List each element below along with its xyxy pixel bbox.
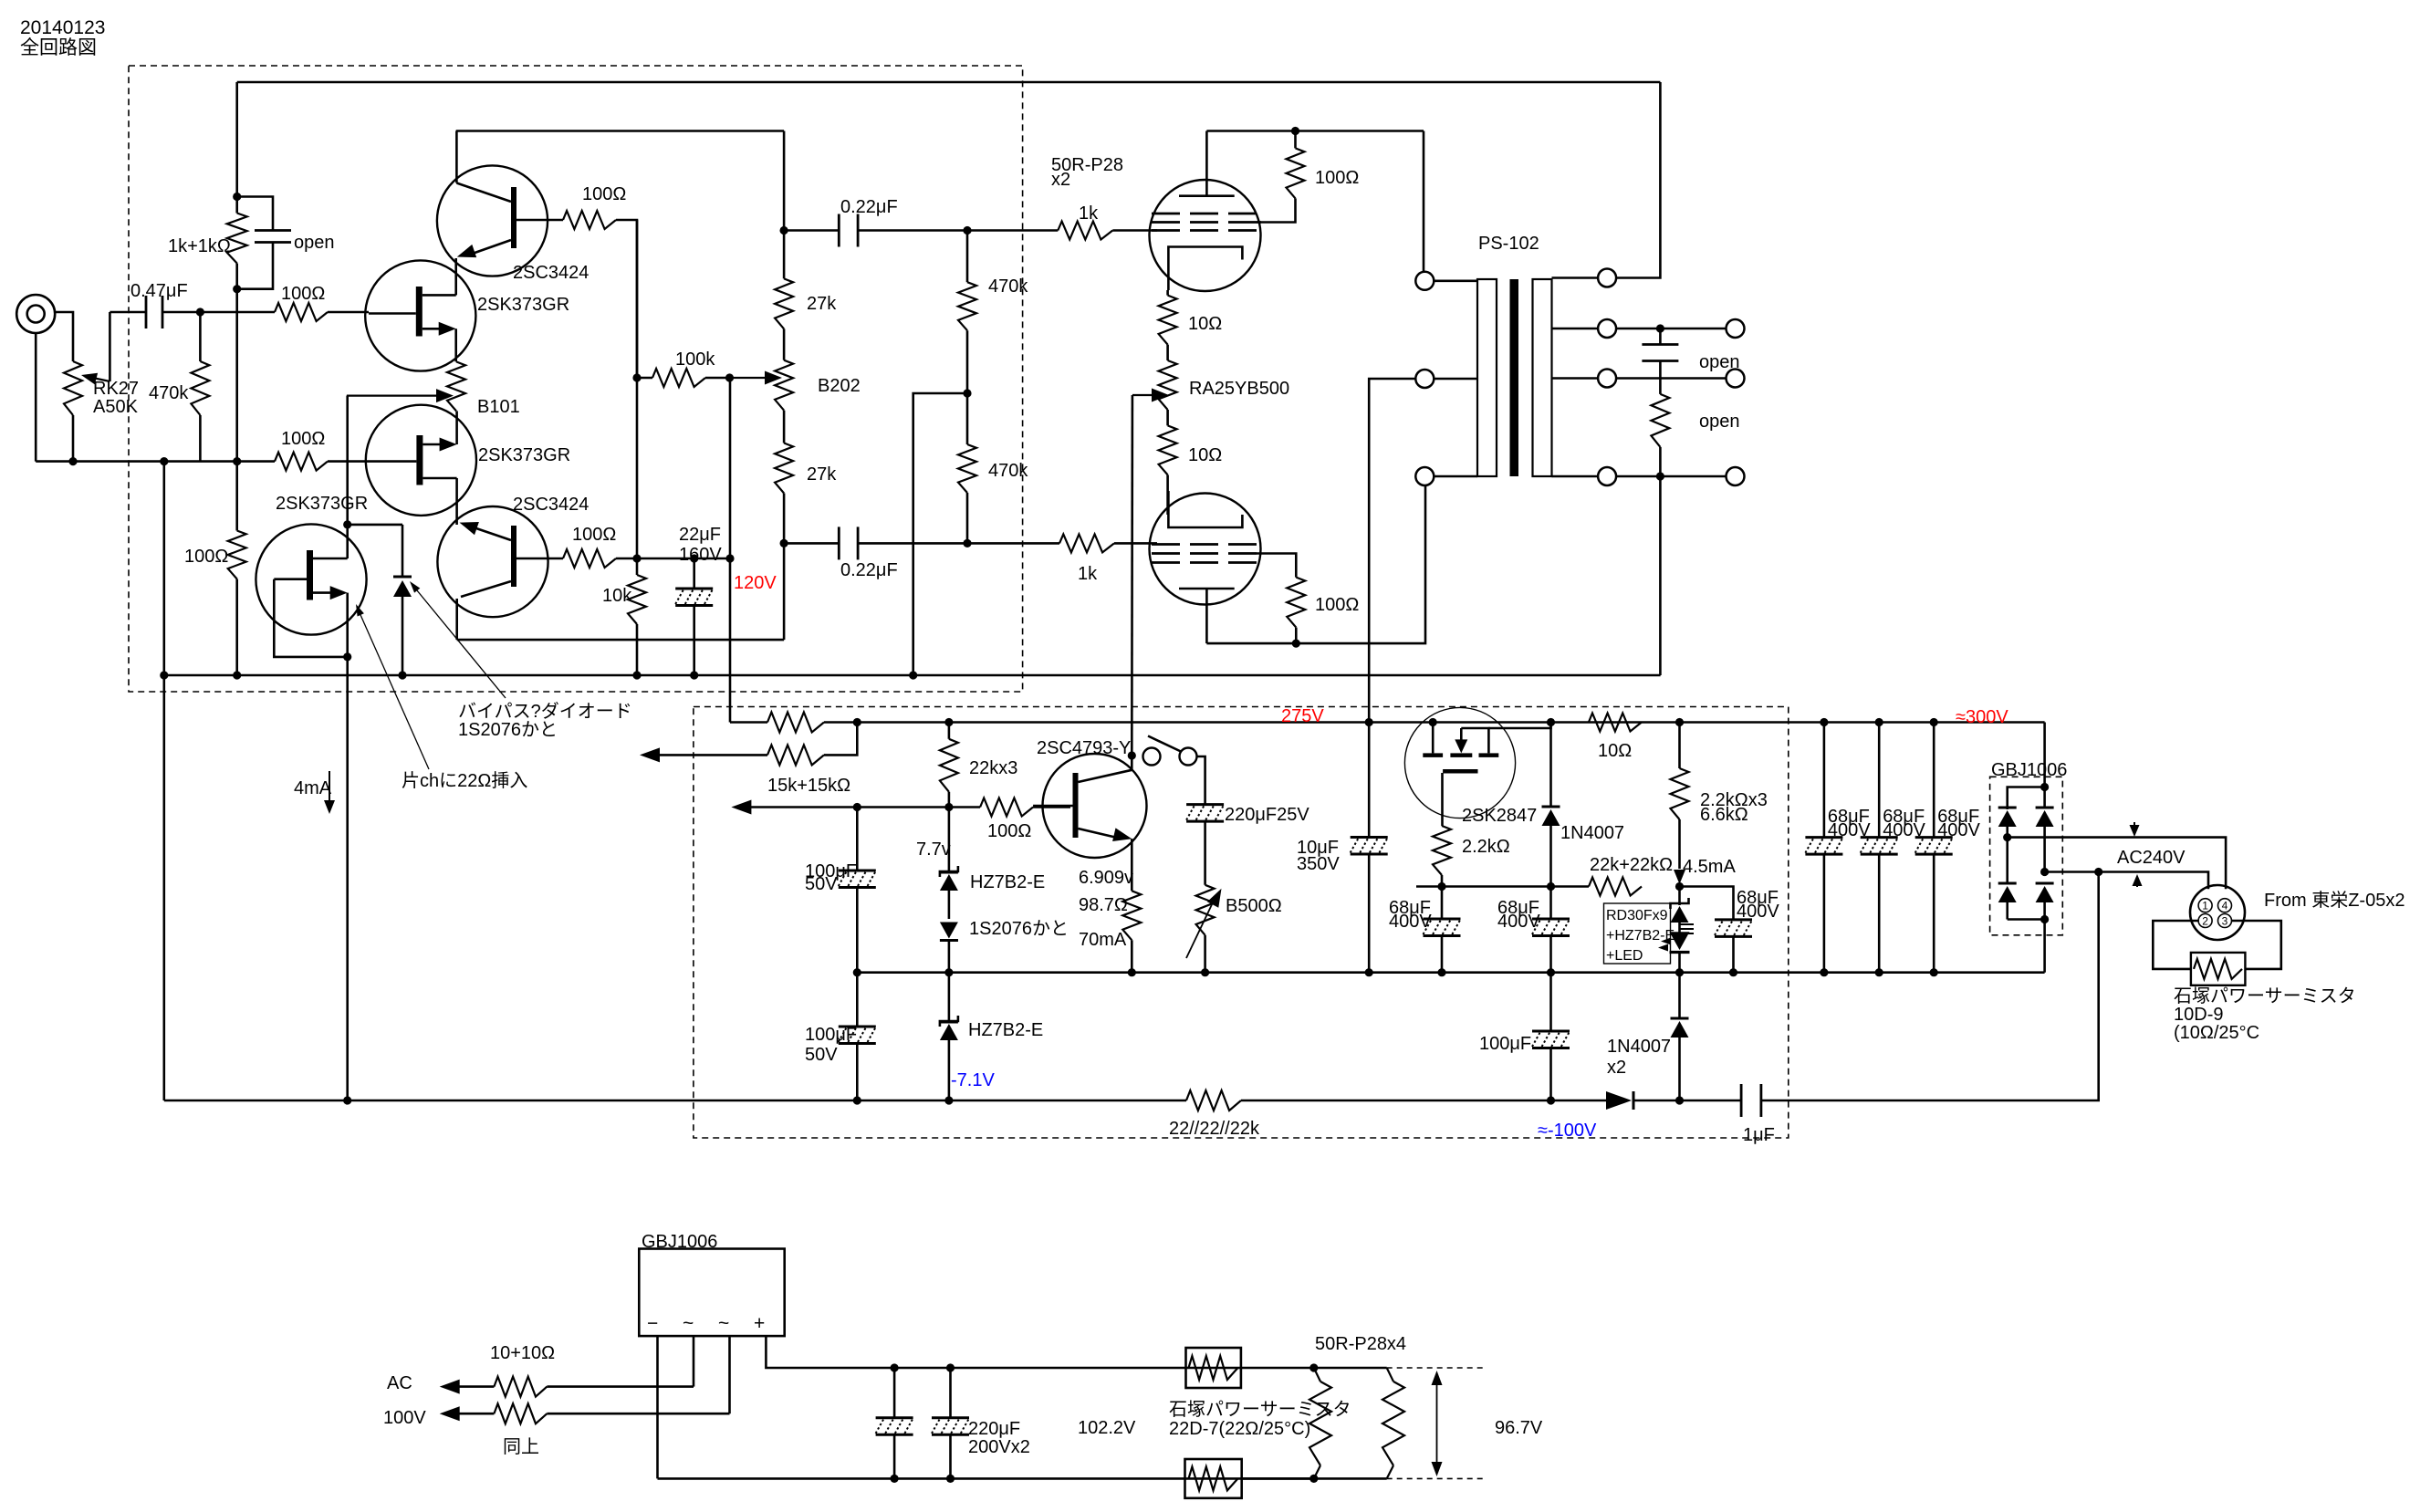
node base lower divider bbox=[632, 554, 641, 562]
wire wiper up to signal bbox=[109, 312, 111, 381]
arrow 4mA bbox=[329, 771, 330, 803]
node 120V cap junction bbox=[725, 554, 734, 562]
svg-text:10D-9: 10D-9 bbox=[2174, 1005, 2223, 1025]
wire input lower rail bbox=[36, 460, 275, 463]
GBJ1006 bottom rectifier box bbox=[639, 1249, 784, 1337]
potentiometer B101 bbox=[447, 361, 465, 411]
svg-text:2SK373GR: 2SK373GR bbox=[478, 445, 570, 465]
node 0.22uF lower junction bbox=[780, 539, 788, 547]
resistor 100R plate lower bbox=[1257, 554, 1296, 578]
diode 1N4007 psu bbox=[1547, 718, 1555, 726]
svg-text:片chに22Ω挿入: 片chに22Ω挿入 bbox=[402, 770, 527, 791]
GBJ ac1 lead bbox=[693, 1336, 695, 1387]
bridge top link bbox=[2008, 787, 2045, 810]
wire long left vertical upper bbox=[163, 462, 166, 675]
tube V2 cathode bbox=[1168, 515, 1242, 527]
zener RD30F chain bbox=[1678, 887, 1681, 906]
svg-text:98.7Ω: 98.7Ω bbox=[1079, 895, 1128, 915]
wire AC100V lower bbox=[494, 1403, 547, 1423]
resistor 100R source3 bbox=[228, 531, 246, 579]
node on PSU ground rail bbox=[1675, 968, 1684, 976]
wire -100V segment b bbox=[1633, 1100, 1680, 1102]
annotation arrow to source bbox=[358, 609, 429, 769]
B202 wiper arrow bbox=[730, 377, 766, 379]
svg-text:0.22μF: 0.22μF bbox=[840, 197, 898, 217]
channel dashed box bbox=[129, 66, 1023, 692]
node collector/switch junction bbox=[1128, 751, 1136, 759]
wire FET2 drain down bbox=[455, 478, 458, 525]
capacitor 0.22uF upper bbox=[784, 229, 839, 232]
bridge diode D1 bbox=[1998, 807, 2017, 809]
node 68uF top 3 bbox=[1930, 718, 1938, 726]
node on PSU ground rail bbox=[944, 968, 953, 976]
capacitor 22uF 160V bbox=[693, 558, 695, 589]
node 470k lower junction bbox=[963, 539, 971, 547]
wire FET3 drain up to B101 wiper bbox=[346, 396, 349, 558]
svg-text:B202: B202 bbox=[818, 376, 861, 396]
wire sec ground down to rail bbox=[1659, 476, 1662, 675]
resistor 470k lower-right bbox=[966, 393, 969, 444]
diode 1S2076 bypass bbox=[402, 525, 404, 577]
node 68uF top 1 bbox=[1820, 718, 1828, 726]
wire FET1 drain up bbox=[454, 258, 457, 295]
svg-text:GBJ1006: GBJ1006 bbox=[1991, 760, 2067, 780]
wire sense line bbox=[1416, 885, 1589, 888]
node 1N4007 bottom bbox=[1547, 882, 1555, 891]
node junction signal/470k bbox=[196, 308, 204, 316]
wire Q4 collector return line bbox=[457, 639, 784, 641]
node plate resistor top bbox=[1291, 127, 1299, 135]
svg-text:100V: 100V bbox=[383, 1408, 426, 1428]
svg-text:HZ7B2-E: HZ7B2-E bbox=[970, 872, 1045, 892]
node 470k midpoint bbox=[966, 330, 969, 393]
svg-text:22kx3: 22kx3 bbox=[969, 758, 1017, 778]
node rail bias bbox=[233, 671, 241, 679]
wire sec row4 bbox=[1616, 475, 1726, 478]
B101 wiper arrow bbox=[347, 395, 436, 397]
node plate resistor bottom bbox=[1292, 640, 1300, 648]
capacitor 220uF a bbox=[891, 1363, 899, 1371]
capacitor open secondary bbox=[1659, 328, 1662, 344]
thermistor 22D-7 lower bbox=[1185, 1459, 1242, 1498]
wire VAS col to collector return bbox=[783, 543, 786, 640]
resistor 100R base lower bbox=[563, 549, 616, 568]
node divider mid bbox=[632, 373, 641, 381]
svg-text:2SC4793-Y: 2SC4793-Y bbox=[1037, 738, 1131, 758]
node on PSU ground rail bbox=[853, 968, 861, 976]
wire V2 plate line bbox=[1206, 476, 1425, 643]
wire top collector line bbox=[456, 130, 784, 132]
svg-text:22//22//22k: 22//22//22k bbox=[1169, 1119, 1260, 1139]
bridge diode D4 bbox=[2036, 882, 2054, 885]
capacitor 68uF 400V 2 bbox=[1878, 723, 1881, 838]
capacitor 10uF 350V bbox=[1365, 718, 1373, 726]
node sec bottom junction bbox=[1656, 472, 1664, 480]
wire 470k mid to ground bbox=[913, 393, 967, 675]
arrow AC marker down bbox=[2134, 822, 2135, 829]
wire 100R to FET1 gate bbox=[328, 311, 369, 314]
wire collector top corner down bbox=[783, 131, 786, 231]
svg-text:100μF: 100μF bbox=[1479, 1034, 1531, 1054]
2SK2847 body arrow bbox=[1455, 739, 1467, 753]
capacitor 220uF b bbox=[946, 1363, 955, 1371]
svg-text:≈300V: ≈300V bbox=[1956, 707, 2008, 727]
wire bias col to 100R vert bbox=[235, 462, 238, 531]
node bridge AC1 bbox=[2003, 833, 2011, 841]
svg-text:400V: 400V bbox=[1937, 820, 1980, 840]
svg-text:AC240V: AC240V bbox=[2117, 848, 2186, 868]
wire pin3 to thermistor bbox=[2232, 921, 2281, 969]
svg-text:x2: x2 bbox=[1607, 1058, 1626, 1078]
svg-text:2SK2847: 2SK2847 bbox=[1462, 806, 1537, 826]
node open cap top bbox=[1656, 324, 1664, 332]
svg-text:RD30Fx9: RD30Fx9 bbox=[1606, 908, 1668, 923]
wire to FET2 gate bbox=[328, 460, 369, 463]
wire amp ground rail bbox=[164, 674, 1661, 677]
2SK2847 drain stub bbox=[1461, 728, 1488, 753]
thermistor 22D-7 upper bbox=[1186, 1348, 1241, 1388]
node tail on -100V line bbox=[343, 1096, 351, 1104]
zener HZ7B2-E upper bbox=[948, 808, 951, 871]
svg-text:A50K: A50K bbox=[93, 397, 139, 417]
tube V2 50R-P28 lower bbox=[1150, 494, 1261, 605]
LED indicator bbox=[1670, 932, 1690, 950]
resistor 10R psu bbox=[1589, 714, 1642, 732]
wire FET3 gate loop bbox=[274, 579, 347, 657]
GBJ minus lead bbox=[656, 1336, 659, 1478]
node on PSU ground rail bbox=[1128, 968, 1136, 976]
annotation arrow to diode bbox=[412, 585, 506, 698]
svg-text:−: − bbox=[647, 1313, 658, 1334]
svg-text:100Ω: 100Ω bbox=[281, 284, 325, 304]
svg-text:2: 2 bbox=[2202, 915, 2208, 928]
svg-text:100Ω: 100Ω bbox=[1315, 168, 1359, 188]
node 0.22uF upper junction bbox=[780, 226, 788, 235]
node on PSU ground rail bbox=[1820, 968, 1828, 976]
transistor Q5 2SK373GR bbox=[256, 524, 366, 634]
resistor 10k bbox=[636, 558, 639, 575]
svg-text:7.7v: 7.7v bbox=[916, 839, 951, 860]
svg-text:100Ω: 100Ω bbox=[572, 525, 616, 545]
node diode bottom on rail bbox=[398, 671, 406, 679]
resistor 22kx3 bbox=[944, 718, 953, 726]
wire bottom bus bbox=[658, 1477, 1314, 1480]
svg-text:(10Ω/25°C: (10Ω/25°C bbox=[2174, 1023, 2259, 1043]
svg-text:100Ω: 100Ω bbox=[1315, 595, 1359, 615]
secondary terminals left bbox=[1598, 269, 1616, 287]
wire grid2 stub upper bbox=[1257, 221, 1261, 224]
wire sec row2 bbox=[1616, 328, 1726, 330]
resistor 470k upper-right bbox=[966, 231, 969, 283]
svg-text:100Ω: 100Ω bbox=[184, 547, 228, 567]
svg-text:1N4007: 1N4007 bbox=[1607, 1037, 1671, 1057]
node heater left bottom bbox=[1309, 1475, 1318, 1483]
svg-text:0.22μF: 0.22μF bbox=[840, 560, 898, 580]
svg-text:10Ω: 10Ω bbox=[1188, 445, 1222, 465]
capacitor 0.47uF bbox=[145, 296, 148, 328]
svg-text:102.2V: 102.2V bbox=[1078, 1418, 1136, 1438]
resistor 1k upper bbox=[1058, 222, 1112, 240]
wire heater bottom bbox=[1242, 1477, 1387, 1480]
svg-text:120V: 120V bbox=[734, 573, 777, 593]
heater resistor 1 bbox=[1314, 1368, 1320, 1382]
node 100k right bbox=[725, 373, 734, 381]
svg-text:6.6kΩ: 6.6kΩ bbox=[1700, 805, 1748, 825]
secondary terminals right bbox=[1727, 319, 1745, 338]
svg-text:400V: 400V bbox=[1497, 912, 1540, 932]
svg-text:50V: 50V bbox=[805, 1045, 838, 1065]
node bias column on lower rail bbox=[233, 457, 241, 465]
node 10k bottom on rail bbox=[632, 671, 641, 679]
svg-text:10Ω: 10Ω bbox=[1598, 741, 1632, 761]
node 22uF bottom on rail bbox=[690, 671, 698, 679]
wire to 1k lower bbox=[967, 542, 1059, 545]
node on PSU ground rail bbox=[1875, 968, 1883, 976]
svg-text:+LED: +LED bbox=[1606, 948, 1643, 964]
transformer primary terminals bbox=[1415, 272, 1434, 290]
resistor 1k+1k bbox=[235, 197, 238, 214]
wire to 1k upper bbox=[967, 229, 1058, 232]
resistor 27k upper bbox=[783, 231, 786, 279]
resistor 10R upper bbox=[1166, 290, 1169, 296]
svg-text:400V: 400V bbox=[1389, 912, 1432, 932]
svg-text:100Ω: 100Ω bbox=[281, 429, 325, 449]
wire junction to gate resistor bbox=[200, 311, 275, 314]
transistor Q1 2SK373GR bbox=[365, 260, 475, 370]
GBJ ac2 lead bbox=[728, 1336, 731, 1413]
node 68uF top 2 bbox=[1875, 718, 1883, 726]
diode 1N4007 horizontal bbox=[1606, 1091, 1632, 1110]
resistor 100R psu bbox=[980, 798, 1033, 817]
wire bridge minus to rail bbox=[2043, 920, 2046, 973]
capacitor 68uF 400V a bbox=[1441, 887, 1444, 920]
wire B101 bottom to FET2 source bbox=[455, 411, 458, 444]
svg-text:96.7V: 96.7V bbox=[1495, 1418, 1543, 1438]
GBJ plus lead bbox=[766, 1336, 1313, 1368]
svg-text:22k+22kΩ: 22k+22kΩ bbox=[1590, 855, 1673, 875]
arrow AC marker up bbox=[2136, 880, 2138, 887]
transistor Q2 2SC3424 bbox=[437, 165, 548, 276]
RCA jack J1 bbox=[16, 295, 55, 333]
svg-text:open: open bbox=[294, 233, 335, 253]
svg-text:AC: AC bbox=[387, 1373, 412, 1393]
svg-text:1S2076かと: 1S2076かと bbox=[969, 919, 1069, 939]
wire 275V line bbox=[857, 721, 2044, 724]
svg-text:27k: 27k bbox=[807, 294, 837, 314]
diode 1N4007 x2 vertical bbox=[1678, 973, 1681, 1018]
node bridge AC2 bbox=[2040, 868, 2049, 876]
svg-text:1k+1kΩ: 1k+1kΩ bbox=[168, 236, 231, 256]
node on PSU ground rail bbox=[1201, 968, 1209, 976]
node diode on -100V bbox=[1675, 1096, 1684, 1104]
wire 300V corner to bridge bbox=[2043, 723, 2046, 787]
svg-text:GBJ1006: GBJ1006 bbox=[642, 1232, 717, 1252]
svg-text:275V: 275V bbox=[1281, 706, 1324, 726]
svg-text:15k+15kΩ: 15k+15kΩ bbox=[767, 776, 850, 796]
node FET3 source junction bbox=[343, 652, 351, 661]
svg-text:6.909v: 6.909v bbox=[1079, 868, 1133, 888]
capacitor 68uF 400V 3 bbox=[1933, 723, 1935, 838]
resistor open secondary bbox=[1659, 379, 1662, 394]
svg-text:-7.1V: -7.1V bbox=[951, 1070, 995, 1090]
resistor 2.2kx3 bbox=[1678, 723, 1681, 769]
node 470k ground on rail bbox=[909, 671, 917, 679]
resistor 27k lower bbox=[783, 411, 786, 443]
node 1k+1k bottom bbox=[233, 285, 241, 293]
wire primary bottom lead bbox=[1434, 475, 1477, 478]
resistor 15k+15k upper bbox=[767, 713, 824, 733]
resistor 100R gate1 bbox=[275, 303, 328, 321]
wire primary top lead bbox=[1434, 279, 1477, 282]
node on PSU ground rail bbox=[1365, 968, 1373, 976]
wire rail col down-left bbox=[163, 675, 166, 1100]
svg-text:~: ~ bbox=[718, 1313, 729, 1334]
diode 1S2076 bbox=[940, 923, 958, 939]
wire PSU ground rail bbox=[857, 971, 2044, 974]
wire bias column down bbox=[235, 289, 238, 462]
svg-text:160V: 160V bbox=[679, 545, 722, 565]
node 100uF right on -100V bbox=[1547, 1096, 1555, 1104]
resistor 1k lower bbox=[1059, 534, 1114, 552]
secondary tap wires bbox=[1552, 276, 1599, 279]
svg-text:+: + bbox=[754, 1313, 765, 1334]
wire divider column bbox=[636, 220, 639, 378]
GBJ1006 dashed outline bbox=[1990, 777, 2063, 935]
svg-text:200Vx2: 200Vx2 bbox=[968, 1437, 1030, 1457]
capacitor 68uF 400V b bbox=[1549, 887, 1552, 920]
wire 120V feed corner bbox=[730, 721, 767, 724]
wire plate to primary top bbox=[1423, 131, 1425, 281]
node on PSU ground rail bbox=[1547, 968, 1555, 976]
svg-text:27k: 27k bbox=[807, 464, 837, 485]
svg-text:470k: 470k bbox=[149, 383, 189, 403]
node 470k upper junction bbox=[963, 226, 971, 235]
capacitor 68uF 400V c bbox=[1715, 918, 1752, 921]
capacitor 100uF right bbox=[1549, 973, 1552, 1031]
wire sec top to feedback bbox=[1616, 82, 1660, 278]
svg-text:50R-P28x4: 50R-P28x4 bbox=[1315, 1334, 1406, 1354]
svg-text:1k: 1k bbox=[1078, 564, 1098, 584]
svg-text:≈-100V: ≈-100V bbox=[1538, 1121, 1597, 1141]
wire RA25 wiper down bbox=[1131, 395, 1133, 756]
svg-text:0.47μF: 0.47μF bbox=[130, 281, 188, 301]
node zener tap bbox=[944, 803, 953, 811]
capacitor 1uF bbox=[1680, 1100, 1742, 1102]
wire B+ mid tap down bbox=[1369, 379, 1415, 723]
transistor Q7 2SK2847 bbox=[1404, 707, 1515, 818]
resistor 470k input bbox=[199, 312, 202, 361]
node 2.2kx3 top bbox=[1675, 718, 1684, 726]
zener HZ7B2-E lower bbox=[948, 973, 951, 1020]
rheostat B500 bbox=[1196, 885, 1215, 935]
svg-text:70mA: 70mA bbox=[1079, 930, 1127, 950]
node pot bottom bbox=[68, 457, 77, 465]
2SK2847 gate lead bbox=[1441, 773, 1444, 826]
arrow AC upper bbox=[440, 1380, 460, 1394]
node 22uF junction bbox=[690, 554, 698, 562]
arrow 96.7V measure bbox=[1436, 1378, 1438, 1469]
wire tail down to -100V bbox=[346, 657, 349, 1100]
2SK2847 source stub bbox=[1429, 718, 1437, 726]
svg-text:1μF: 1μF bbox=[1743, 1125, 1775, 1145]
transformer core bbox=[1510, 279, 1519, 476]
wire branch to diode bbox=[348, 524, 402, 527]
svg-text:B101: B101 bbox=[477, 397, 520, 417]
svg-text:220μF: 220μF bbox=[968, 1419, 1020, 1439]
transistor Q4 2SC3424 bbox=[437, 506, 548, 617]
svg-text:3: 3 bbox=[2222, 915, 2228, 928]
wire Q4 collector down bbox=[455, 599, 458, 640]
arrow AC lower bbox=[440, 1406, 460, 1421]
svg-text:22D-7(22Ω/25°C): 22D-7(22Ω/25°C) bbox=[1169, 1419, 1310, 1439]
capacitor 68uF 400V 1 bbox=[1823, 723, 1826, 838]
label RD30F box bbox=[1604, 903, 1671, 964]
wire base line to 120V col bbox=[637, 558, 730, 560]
RA25 wiper arrow bbox=[1132, 394, 1152, 396]
svg-text:1k: 1k bbox=[1079, 203, 1099, 224]
resistor 22k+22k bbox=[1589, 878, 1642, 896]
node heater left top bbox=[1309, 1363, 1318, 1371]
transistor Q3 2SK373GR bbox=[366, 405, 476, 516]
switch SW1 bbox=[1143, 748, 1161, 766]
capacitor 0.22uF lower bbox=[784, 542, 839, 545]
resistor 2.2k gate bbox=[1433, 826, 1451, 875]
node bridge plus bbox=[2040, 783, 2049, 791]
node AC return branch bbox=[2094, 868, 2102, 876]
svg-text:100Ω: 100Ω bbox=[987, 821, 1031, 841]
tube V1 cathode bbox=[1168, 247, 1242, 291]
svg-text:1: 1 bbox=[2202, 900, 2208, 912]
wire 27k to lower junction bbox=[783, 494, 786, 544]
heater resistor 2 bbox=[1387, 1368, 1393, 1382]
arrow to other channel lower bbox=[731, 800, 751, 815]
bridge diode D2 bbox=[2043, 787, 2046, 808]
svg-text:x2: x2 bbox=[1051, 170, 1070, 190]
node 1k+1k top bbox=[233, 193, 241, 201]
dashed measure lines bbox=[1387, 1367, 1483, 1369]
wire jack ground down bbox=[35, 333, 37, 462]
thermistor 10D-9 bbox=[2191, 953, 2246, 985]
capacitor open parallel bbox=[237, 197, 273, 231]
wire sense to 68uF bbox=[1680, 887, 1734, 920]
svg-text:2.2kΩ: 2.2kΩ bbox=[1462, 837, 1510, 857]
wire AC240V lower bbox=[2045, 872, 2208, 890]
wire 120V column bbox=[729, 378, 732, 723]
svg-text:2SC3424: 2SC3424 bbox=[513, 263, 589, 283]
potentiometer RK27 A50K bbox=[64, 361, 82, 415]
connector from power unit bbox=[2190, 885, 2245, 940]
resistor 10R lower bbox=[1166, 410, 1169, 425]
node on PSU ground rail bbox=[1437, 968, 1445, 976]
wire emitter down bbox=[1131, 839, 1133, 891]
bridge bottom link bbox=[2008, 918, 2045, 921]
svg-text:220μF25V: 220μF25V bbox=[1225, 805, 1309, 825]
svg-text:4: 4 bbox=[2222, 900, 2228, 912]
resistor 10+10R bbox=[494, 1377, 547, 1397]
svg-text:20140123: 20140123 bbox=[20, 17, 105, 38]
wire jack to pot bbox=[55, 312, 73, 361]
wire -100V line bbox=[164, 1100, 1186, 1102]
svg-text:10Ω: 10Ω bbox=[1188, 314, 1222, 334]
zener hash marks bbox=[1680, 923, 1695, 925]
tube V1 50R-P28 upper bbox=[1150, 180, 1261, 291]
node RD30F top bbox=[1675, 882, 1684, 891]
transformer secondary winding bbox=[1533, 279, 1552, 476]
B500 wiper arrow bbox=[1186, 899, 1215, 958]
capacitor 220uF 25V bbox=[1186, 803, 1224, 806]
capacitor 100uF 50V lower bbox=[856, 973, 859, 1027]
svg-text:400V: 400V bbox=[1737, 902, 1779, 922]
